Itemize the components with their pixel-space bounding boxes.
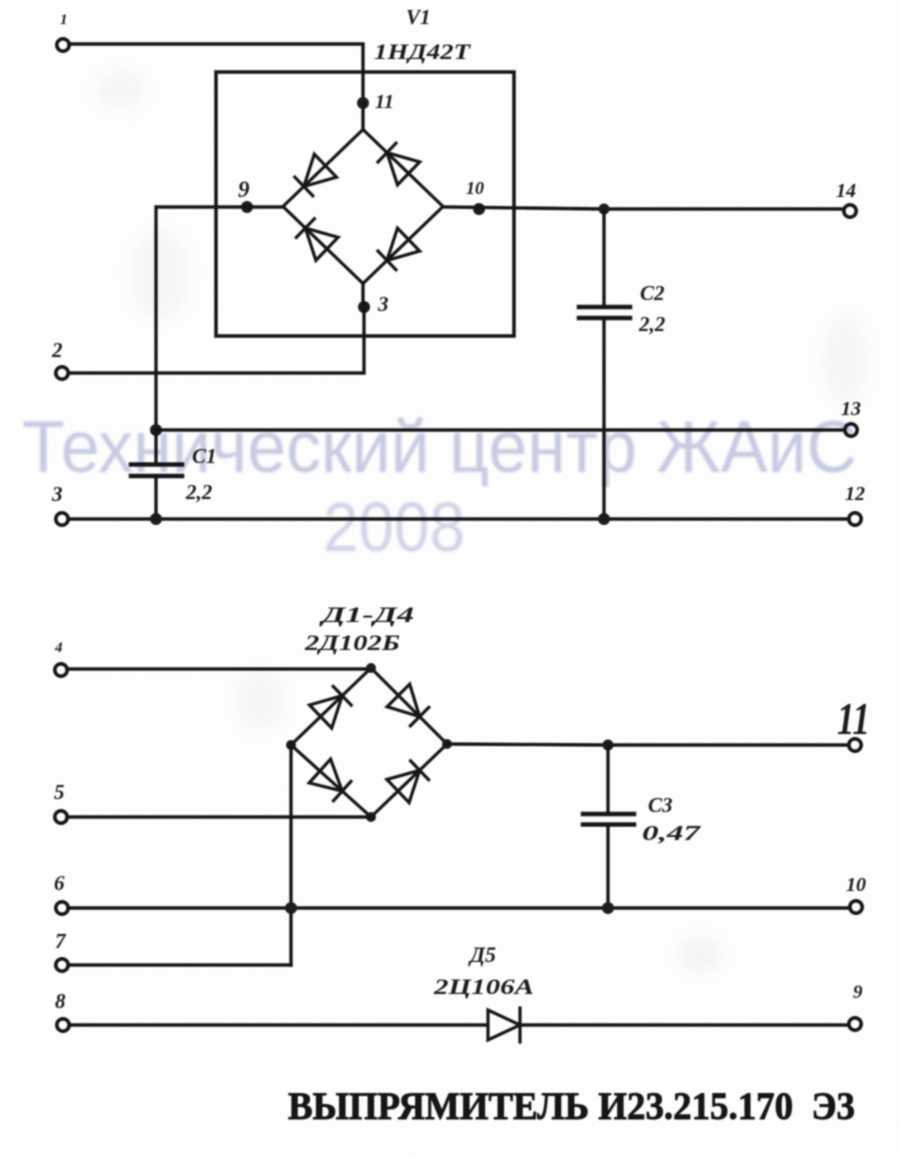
wire diode Д5 to terminal 9: [522, 1023, 849, 1026]
svg-text:14: 14: [836, 180, 856, 202]
svg-text:1: 1: [60, 12, 68, 28]
wire bridge right vertex to terminal 14: [443, 207, 844, 209]
svg-text:5: 5: [54, 780, 65, 804]
svg-text:9: 9: [238, 177, 250, 202]
terminal 11: [849, 739, 861, 751]
capacitor C2: [579, 211, 630, 517]
svg-text:0,47: 0,47: [642, 821, 702, 845]
node bridge2 right vertex: [442, 739, 452, 749]
wire bridge2 right vertex to terminal 11: [447, 744, 849, 745]
watermark: [22, 407, 857, 566]
diode Д3 bottom-left: [309, 759, 351, 801]
svg-text:2Ц106А: 2Ц106А: [433, 974, 534, 999]
node bridge2 left vertex: [286, 740, 296, 750]
bridge module V1 outline: [216, 72, 514, 336]
svg-text:7: 7: [55, 929, 67, 953]
svg-text:4: 4: [54, 640, 63, 656]
wire terminal5 to bridge2 bottom: [67, 815, 371, 818]
terminal 8: [57, 1019, 69, 1031]
terminal 7: [56, 959, 68, 971]
terminal 13: [845, 424, 857, 436]
diode Д5: [488, 1008, 520, 1042]
svg-text:С1: С1: [192, 444, 217, 468]
node C3 bottom junction: [602, 902, 614, 914]
svg-text:2Д102Б: 2Д102Б: [304, 630, 400, 655]
svg-text:V1: V1: [406, 5, 431, 29]
diode V1 top-right: [378, 143, 420, 185]
terminal 6: [56, 902, 68, 914]
svg-text:2008: 2008: [323, 488, 465, 566]
svg-text:Д5: Д5: [468, 942, 496, 967]
svg-text:2,2: 2,2: [638, 312, 666, 336]
wire bridge2 left vertex down to terminal 7 wire: [289, 745, 292, 965]
node 11: [357, 97, 369, 109]
wire terminal3 to terminal 12: [68, 517, 849, 520]
node C3 top junction: [603, 740, 614, 751]
svg-text:11: 11: [375, 91, 394, 113]
node 10 of module: [473, 203, 485, 215]
terminal 3: [56, 513, 68, 525]
node C1 top junction: [150, 424, 162, 436]
terminal 12: [849, 513, 861, 525]
node 9: [241, 201, 253, 213]
terminal 9: [849, 1018, 861, 1030]
svg-text:3: 3: [377, 292, 389, 316]
svg-text:13: 13: [841, 398, 861, 420]
node bridge2 top vertex: [366, 663, 376, 673]
svg-text:12: 12: [845, 483, 865, 505]
svg-text:9: 9: [853, 982, 863, 1003]
svg-text:8: 8: [55, 989, 66, 1013]
terminal 5: [55, 811, 67, 823]
svg-text:3: 3: [51, 482, 63, 506]
terminal 14: [844, 205, 856, 217]
diode Д1 top-left: [310, 686, 352, 728]
wire terminal7 to bridge2 left column: [68, 963, 291, 966]
terminal 10: [850, 901, 862, 913]
svg-text:Д1-Д4: Д1-Д4: [319, 602, 414, 627]
svg-text:6: 6: [54, 871, 65, 895]
svg-text:2,2: 2,2: [185, 480, 213, 504]
diode V1 top-left: [295, 154, 337, 196]
capacitor C3: [583, 747, 634, 906]
node bridge2 bottom vertex: [366, 812, 376, 822]
diode Д2 top-right: [387, 684, 429, 726]
terminal 1: [57, 39, 69, 51]
capacitor C1: [131, 430, 182, 517]
svg-text:1НД42Т: 1НД42Т: [374, 39, 472, 64]
wire node11 to bridge apex: [361, 103, 364, 130]
node bridge2-left column crossing: [285, 902, 297, 914]
svg-text:10: 10: [846, 874, 866, 896]
terminal 4: [55, 664, 67, 676]
wire terminal8 to diode Д5: [69, 1023, 487, 1026]
svg-text:С2: С2: [640, 281, 665, 305]
node 3: [358, 301, 370, 313]
svg-text:С3: С3: [648, 793, 673, 817]
node C1 bottom junction: [150, 513, 162, 525]
svg-text:2: 2: [51, 338, 63, 362]
wire bridge bottom to terminal 2: [69, 283, 364, 373]
wire terminal6 to terminal 10: [68, 906, 850, 909]
node C2 top junction: [599, 204, 610, 215]
bridge V1 diamond: [283, 130, 443, 284]
diode Д4 bottom-right: [387, 761, 429, 803]
bridge Д1-Д4 diamond: [291, 668, 447, 817]
svg-text:ВЫПРЯМИТЕЛЬ И23.215.170 Э3: ВЫПРЯМИТЕЛЬ И23.215.170 Э3: [288, 1085, 855, 1128]
wire terminal1 to bridge top: [69, 44, 363, 99]
diode V1 bottom-left: [296, 219, 338, 261]
wire mid to terminal 13: [156, 428, 845, 431]
wire terminal4 to bridge2 top: [67, 667, 371, 670]
node C2 bottom junction: [598, 513, 610, 525]
svg-text:11: 11: [837, 693, 870, 744]
svg-text:10: 10: [466, 178, 484, 198]
wire bridge left vertex to C1 column: [156, 207, 283, 428]
terminal 2: [56, 367, 68, 379]
diode V1 bottom-right: [378, 228, 420, 270]
